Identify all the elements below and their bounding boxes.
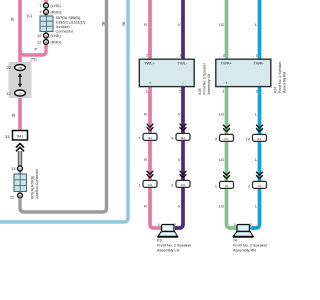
- svg-text:LG: LG: [219, 157, 224, 162]
- wire color labels row 1: [144, 22, 258, 27]
- svg-text:TWR-: TWR-: [254, 61, 265, 66]
- pin labels above tweeter boxes: [146, 53, 259, 58]
- svg-text:22: 22: [7, 65, 12, 70]
- pin 12 (RHD) circle: [37, 40, 62, 45]
- svg-text:33: 33: [5, 134, 10, 139]
- svg-text:TWL+: TWL+: [144, 61, 155, 66]
- svg-text:5B: 5B: [102, 21, 106, 26]
- wire: frame line (light cyan): [0, 0, 128, 222]
- svg-text:L: L: [255, 157, 258, 162]
- pin 7 (RHD) circle: [39, 10, 62, 15]
- mating arrow between connectors: [18, 73, 22, 88]
- svg-text:(LHD): (LHD): [51, 34, 62, 38]
- wire color labels row 2: [144, 112, 258, 117]
- svg-text:Connector: Connector: [56, 30, 74, 34]
- in-line connector IH1 pin 1 (pink, bottom row): [138, 171, 157, 188]
- in-line connector II1 pin 1 (green, bottom row): [215, 172, 234, 189]
- svg-text:V: V: [178, 112, 181, 117]
- wire: TWR+ (LG light green): [227, 0, 239, 228]
- wire: TWL+ (R pink): [150, 0, 162, 228]
- speaker K3 icon (LH): [158, 225, 179, 237]
- junction connector name text: [56, 16, 86, 34]
- pin 13 circle: [11, 166, 22, 171]
- pass-through connector gray shade box: [9, 62, 32, 98]
- component: Front No. 2 Speaker Assembly LH (tweeter box): [139, 59, 194, 86]
- component name K35 (rotated): [198, 62, 211, 94]
- junction connector R09 stub: [19, 165, 21, 199]
- svg-text:Junction: Junction: [56, 25, 70, 29]
- speaker K3 label: [157, 239, 192, 253]
- in-line connector IE1 pin 8 (violet, top row): [171, 124, 190, 141]
- svg-text:A: A: [45, 34, 47, 38]
- svg-text:10: 10: [246, 138, 250, 142]
- pin 12 (LHD) circle: [37, 33, 61, 38]
- svg-text:R: R: [144, 112, 147, 117]
- svg-text:A: A: [45, 4, 47, 8]
- svg-text:V: V: [178, 157, 181, 162]
- svg-text:LG: LG: [219, 22, 224, 27]
- svg-text:Assembly RH: Assembly RH: [283, 71, 287, 93]
- svg-text:R09(A) R09(B): R09(A) R09(B): [31, 176, 35, 199]
- svg-text:V: V: [178, 204, 181, 209]
- in-line connector IF1 pin 9 (green, top row): [215, 125, 234, 142]
- svg-text:Assembly RH: Assembly RH: [233, 249, 256, 253]
- speaker J4 label: [233, 239, 268, 253]
- svg-text:12: 12: [37, 33, 42, 38]
- wire: TWR- (L blue): [251, 0, 260, 228]
- svg-text:Assembly LH: Assembly LH: [207, 73, 211, 94]
- pin 7 (LHD) circle: [39, 3, 61, 8]
- svg-text:(LHD): (LHD): [51, 4, 62, 8]
- wire: branch to junction connector S87: [20, 44, 46, 55]
- svg-text:IE1: IE1: [181, 136, 186, 140]
- svg-text:2: 2: [248, 185, 250, 189]
- svg-text:(RHD): (RHD): [51, 11, 62, 15]
- wire: shield ground run (gray): [20, 0, 107, 212]
- svg-text:2: 2: [171, 184, 173, 188]
- svg-text:Front No. 2 Speaker: Front No. 2 Speaker: [203, 62, 207, 94]
- svg-text:9: 9: [215, 138, 217, 142]
- wire color labels row 3: [144, 157, 258, 162]
- in-line connector II1 pin 2 (blue, bottom row): [248, 172, 267, 189]
- svg-text:IE1: IE1: [148, 136, 153, 140]
- component: Front No. 2 Speaker Assembly RH (tweeter box): [216, 59, 271, 86]
- svg-text:LG: LG: [219, 112, 224, 117]
- svg-text:V: V: [178, 22, 181, 27]
- svg-text:(C): (C): [27, 14, 33, 18]
- svg-text:IF1: IF1: [257, 137, 261, 141]
- wire color labels row 4: [144, 204, 258, 209]
- speaker pin labels LH: [158, 222, 177, 227]
- svg-text:(*6): (*6): [31, 58, 38, 62]
- wire: main radio output R (pink) top-left vertical: [18, 0, 22, 131]
- svg-text:L: L: [255, 22, 258, 27]
- svg-text:IH1: IH1: [148, 183, 153, 187]
- svg-text:17: 17: [7, 91, 12, 96]
- svg-text:Front No. 2 Speaker: Front No. 2 Speaker: [233, 244, 268, 248]
- svg-text:K34: K34: [274, 87, 278, 93]
- svg-text:P: P: [35, 47, 38, 52]
- svg-text:+: +: [149, 81, 152, 86]
- svg-text:L: L: [255, 204, 258, 209]
- svg-text:K35: K35: [198, 88, 202, 94]
- svg-text:TWR+: TWR+: [221, 61, 233, 66]
- svg-text:22: 22: [10, 195, 15, 200]
- svg-text:(RHD): (RHD): [51, 41, 62, 45]
- svg-text:S87(A) S88(B),: S87(A) S88(B),: [56, 16, 82, 20]
- svg-text:R: R: [144, 157, 147, 162]
- speaker pin labels RH: [234, 222, 253, 227]
- svg-text:2A: 2A: [18, 91, 22, 95]
- svg-text:R: R: [144, 22, 147, 27]
- svg-text:II1: II1: [225, 184, 229, 188]
- svg-text:K3: K3: [157, 239, 162, 243]
- svg-text:IF1: IF1: [224, 137, 228, 141]
- svg-text:TWL-: TWL-: [178, 61, 188, 66]
- svg-text:12: 12: [37, 40, 42, 45]
- svg-text:R: R: [12, 113, 15, 118]
- in-line connector IH1 pin 2 (violet, bottom row): [171, 171, 190, 188]
- svg-text:13: 13: [11, 166, 16, 171]
- shield chevrons below S41: [16, 144, 24, 152]
- component name K34 (rotated): [274, 61, 287, 93]
- shield ground box S41: [5, 131, 27, 141]
- svg-text:Front No. 2 Speaker: Front No. 2 Speaker: [157, 244, 192, 248]
- in-line connector IF1 pin 10 (blue, top row): [246, 125, 267, 142]
- svg-text:Junction Connector: Junction Connector: [35, 168, 39, 199]
- svg-text:L: L: [255, 112, 258, 117]
- junction connector S87(A) S88(B) S130(C) S131(D) block: [40, 16, 53, 32]
- connector oval 2B: [7, 65, 26, 71]
- svg-text:2B: 2B: [18, 66, 22, 70]
- svg-text:5B: 5B: [122, 21, 126, 26]
- wire: TWL- (V violet): [175, 0, 183, 228]
- svg-text:8: 8: [171, 137, 173, 141]
- svg-text:Assembly LH: Assembly LH: [157, 249, 180, 253]
- in-line connector IE1 pin 7 (pink, top row): [138, 124, 157, 141]
- speaker J4 icon (RH): [233, 225, 254, 237]
- svg-text:B: B: [19, 194, 21, 198]
- svg-text:B: B: [45, 40, 47, 44]
- svg-text:A: A: [19, 167, 21, 171]
- junction connector S87/S88/S130/S131 stub wire: [44, 0, 47, 43]
- svg-text:B: B: [45, 10, 47, 14]
- svg-text:IH1: IH1: [181, 183, 186, 187]
- svg-text:7: 7: [39, 3, 42, 8]
- junction connector R09 name (rotated): [31, 168, 40, 199]
- svg-text:R: R: [144, 204, 147, 209]
- svg-text:S130(C),S131(D): S130(C),S131(D): [56, 21, 86, 25]
- connector oval 2A: [7, 90, 26, 96]
- svg-text:R: R: [11, 17, 14, 22]
- pin labels below tweeter boxes: [146, 88, 259, 93]
- svg-text:7: 7: [138, 137, 140, 141]
- svg-text:J4: J4: [233, 239, 237, 243]
- svg-text:1: 1: [138, 184, 140, 188]
- junction connector R09 block: [14, 174, 27, 192]
- shield braid wire to junction connector: [18, 151, 22, 166]
- svg-text:Front No. 2 Speaker: Front No. 2 Speaker: [278, 61, 282, 93]
- svg-text:1: 1: [215, 185, 217, 189]
- svg-text:7: 7: [39, 10, 42, 15]
- svg-text:S41: S41: [16, 134, 24, 139]
- svg-text:+: +: [225, 81, 228, 86]
- svg-text:II1: II1: [258, 184, 262, 188]
- pin 22 circle: [10, 193, 22, 199]
- svg-text:LG: LG: [219, 204, 224, 209]
